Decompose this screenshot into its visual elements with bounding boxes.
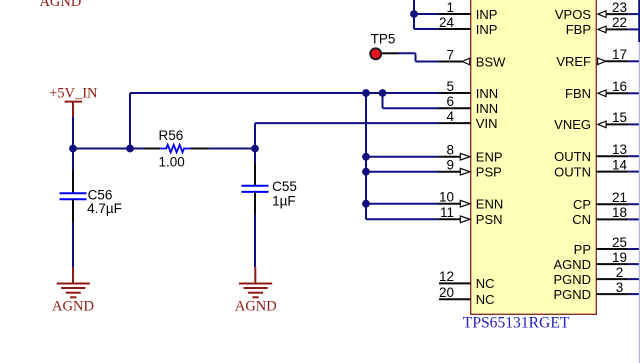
svg-text:C55: C55 xyxy=(272,179,297,194)
pin 9 PSP xyxy=(439,158,502,180)
wire net +5V_IN bus horizontal xyxy=(73,148,255,150)
svg-text:VPOS: VPOS xyxy=(555,7,591,22)
svg-text:1.00: 1.00 xyxy=(159,154,185,169)
pin 14 OUTN xyxy=(554,157,640,179)
wire trunk to enable pins xyxy=(365,93,367,219)
svg-text:VNEG: VNEG xyxy=(554,117,591,132)
svg-text:AGND: AGND xyxy=(553,257,591,272)
svg-text:PGND: PGND xyxy=(553,287,591,302)
node ENP junction xyxy=(362,153,370,161)
svg-text:AGND: AGND xyxy=(52,299,94,315)
svg-text:5: 5 xyxy=(446,79,454,94)
wire ENN branch xyxy=(366,203,439,205)
wire +5V_IN drop to bus xyxy=(72,117,74,149)
svg-text:INP: INP xyxy=(476,7,498,22)
svg-text:C56: C56 xyxy=(88,187,113,202)
svg-text:ENN: ENN xyxy=(476,197,503,212)
svg-text:3: 3 xyxy=(616,280,624,295)
svg-text:OUTN: OUTN xyxy=(554,164,591,179)
resistor R56 1.00 xyxy=(144,128,209,169)
pin 25 PP xyxy=(574,235,640,257)
svg-text:19: 19 xyxy=(612,250,627,265)
IC U1 TPS65131RGET xyxy=(463,0,597,332)
svg-text:PP: PP xyxy=(574,242,591,257)
pin 22 FBP xyxy=(566,15,640,37)
pin 12 NC xyxy=(439,269,495,291)
node junction bus/riser xyxy=(126,145,134,153)
wire C55 to ground xyxy=(254,215,256,268)
svg-text:11: 11 xyxy=(440,205,454,220)
pin 2 PGND xyxy=(553,265,640,287)
wire INP nets join at right edge xyxy=(638,0,640,42)
pin 10 ENN xyxy=(439,190,503,212)
pin 11 PSN xyxy=(439,205,503,227)
node trunk top junction xyxy=(362,89,370,97)
wire PSP branch xyxy=(366,171,439,173)
svg-text:25: 25 xyxy=(612,235,627,250)
svg-text:INN: INN xyxy=(476,86,498,101)
svg-text:TPS65131RGET: TPS65131RGET xyxy=(463,315,570,332)
svg-text:22: 22 xyxy=(612,15,627,30)
svg-text:7: 7 xyxy=(446,47,454,62)
node PSP junction xyxy=(362,168,370,176)
svg-text:NC: NC xyxy=(476,292,495,307)
svg-text:15: 15 xyxy=(612,110,627,125)
svg-text:NC: NC xyxy=(476,276,495,291)
svg-text:VIN: VIN xyxy=(476,116,498,131)
pin 4 VIN xyxy=(439,109,497,131)
svg-text:12: 12 xyxy=(439,269,454,284)
node junction after R56 xyxy=(251,145,259,153)
svg-text:OUTN: OUTN xyxy=(554,149,591,164)
pin 17 VREF xyxy=(556,47,640,69)
svg-text:20: 20 xyxy=(439,285,454,300)
pin 5 INN xyxy=(439,79,498,101)
capacitor C56 4.7µF xyxy=(60,149,122,223)
svg-text:FBN: FBN xyxy=(565,86,591,101)
pin 15 VNEG xyxy=(554,110,640,132)
svg-text:13: 13 xyxy=(612,142,627,157)
wire riser to VIN xyxy=(255,123,439,148)
ground AGND under C55 xyxy=(235,267,277,315)
pin 13 OUTN xyxy=(554,142,640,164)
svg-text:INN: INN xyxy=(476,101,498,116)
svg-text:21: 21 xyxy=(612,190,627,205)
svg-text:16: 16 xyxy=(612,79,627,94)
svg-text:24: 24 xyxy=(439,15,455,30)
svg-text:8: 8 xyxy=(446,143,454,158)
ground AGND under C56 xyxy=(52,267,94,315)
svg-text:PSP: PSP xyxy=(476,165,502,180)
pin 18 CN xyxy=(572,205,640,227)
svg-text:CP: CP xyxy=(573,197,591,212)
node pin6 junction xyxy=(379,89,387,97)
svg-text:PGND: PGND xyxy=(553,272,591,287)
pin 1 INP xyxy=(439,0,497,22)
test point TP5 xyxy=(370,32,398,60)
svg-text:AGND: AGND xyxy=(39,0,81,10)
pin 21 CP xyxy=(573,190,640,212)
capacitor C55 1µF xyxy=(242,149,297,215)
pin 20 NC xyxy=(439,285,495,307)
node ENN junction xyxy=(362,200,370,208)
svg-text:6: 6 xyxy=(446,94,454,109)
svg-text:PSN: PSN xyxy=(476,212,503,227)
svg-text:AGND: AGND xyxy=(235,299,277,315)
pin 7 BSW xyxy=(439,47,506,69)
svg-text:18: 18 xyxy=(612,205,627,220)
wire TP5 to BSW xyxy=(398,53,439,61)
pin 6 INN xyxy=(439,94,498,116)
pin 19 AGND xyxy=(553,250,640,272)
power symbol +5V_IN xyxy=(49,86,98,118)
wire C56 to ground xyxy=(72,222,74,267)
svg-text:10: 10 xyxy=(439,190,454,205)
wire INP feed vertical xyxy=(414,0,439,29)
node junction at +5V entry xyxy=(69,145,77,153)
svg-text:FBP: FBP xyxy=(566,22,591,37)
pin 23 VPOS xyxy=(555,0,640,22)
svg-text:TP5: TP5 xyxy=(371,32,396,47)
svg-text:23: 23 xyxy=(612,0,627,15)
svg-text:9: 9 xyxy=(446,158,454,173)
svg-text:BSW: BSW xyxy=(476,54,506,69)
wire PSN branch xyxy=(366,218,439,220)
svg-text:VREF: VREF xyxy=(556,54,591,69)
pin 24 INP xyxy=(439,15,498,37)
svg-text:ENP: ENP xyxy=(476,150,503,165)
svg-text:R56: R56 xyxy=(159,128,184,143)
svg-text:CN: CN xyxy=(572,212,591,227)
wire riser to INN bus xyxy=(130,93,439,149)
pin 16 FBN xyxy=(565,79,640,101)
page edge line right xyxy=(638,0,640,363)
svg-text:4.7µF: 4.7µF xyxy=(87,201,122,216)
svg-text:1: 1 xyxy=(446,0,454,15)
svg-text:+5V_IN: +5V_IN xyxy=(49,86,98,102)
pin 3 PGND xyxy=(553,280,640,302)
svg-text:14: 14 xyxy=(612,157,628,172)
wire ENP branch xyxy=(366,156,439,158)
svg-text:4: 4 xyxy=(446,109,454,124)
svg-text:INP: INP xyxy=(476,22,498,37)
svg-text:2: 2 xyxy=(616,265,624,280)
pin 8 ENP xyxy=(439,143,503,165)
svg-text:1µF: 1µF xyxy=(272,194,296,209)
node INP junction xyxy=(410,10,418,18)
svg-text:17: 17 xyxy=(612,47,627,62)
wire INN pin6 drop xyxy=(383,93,440,108)
